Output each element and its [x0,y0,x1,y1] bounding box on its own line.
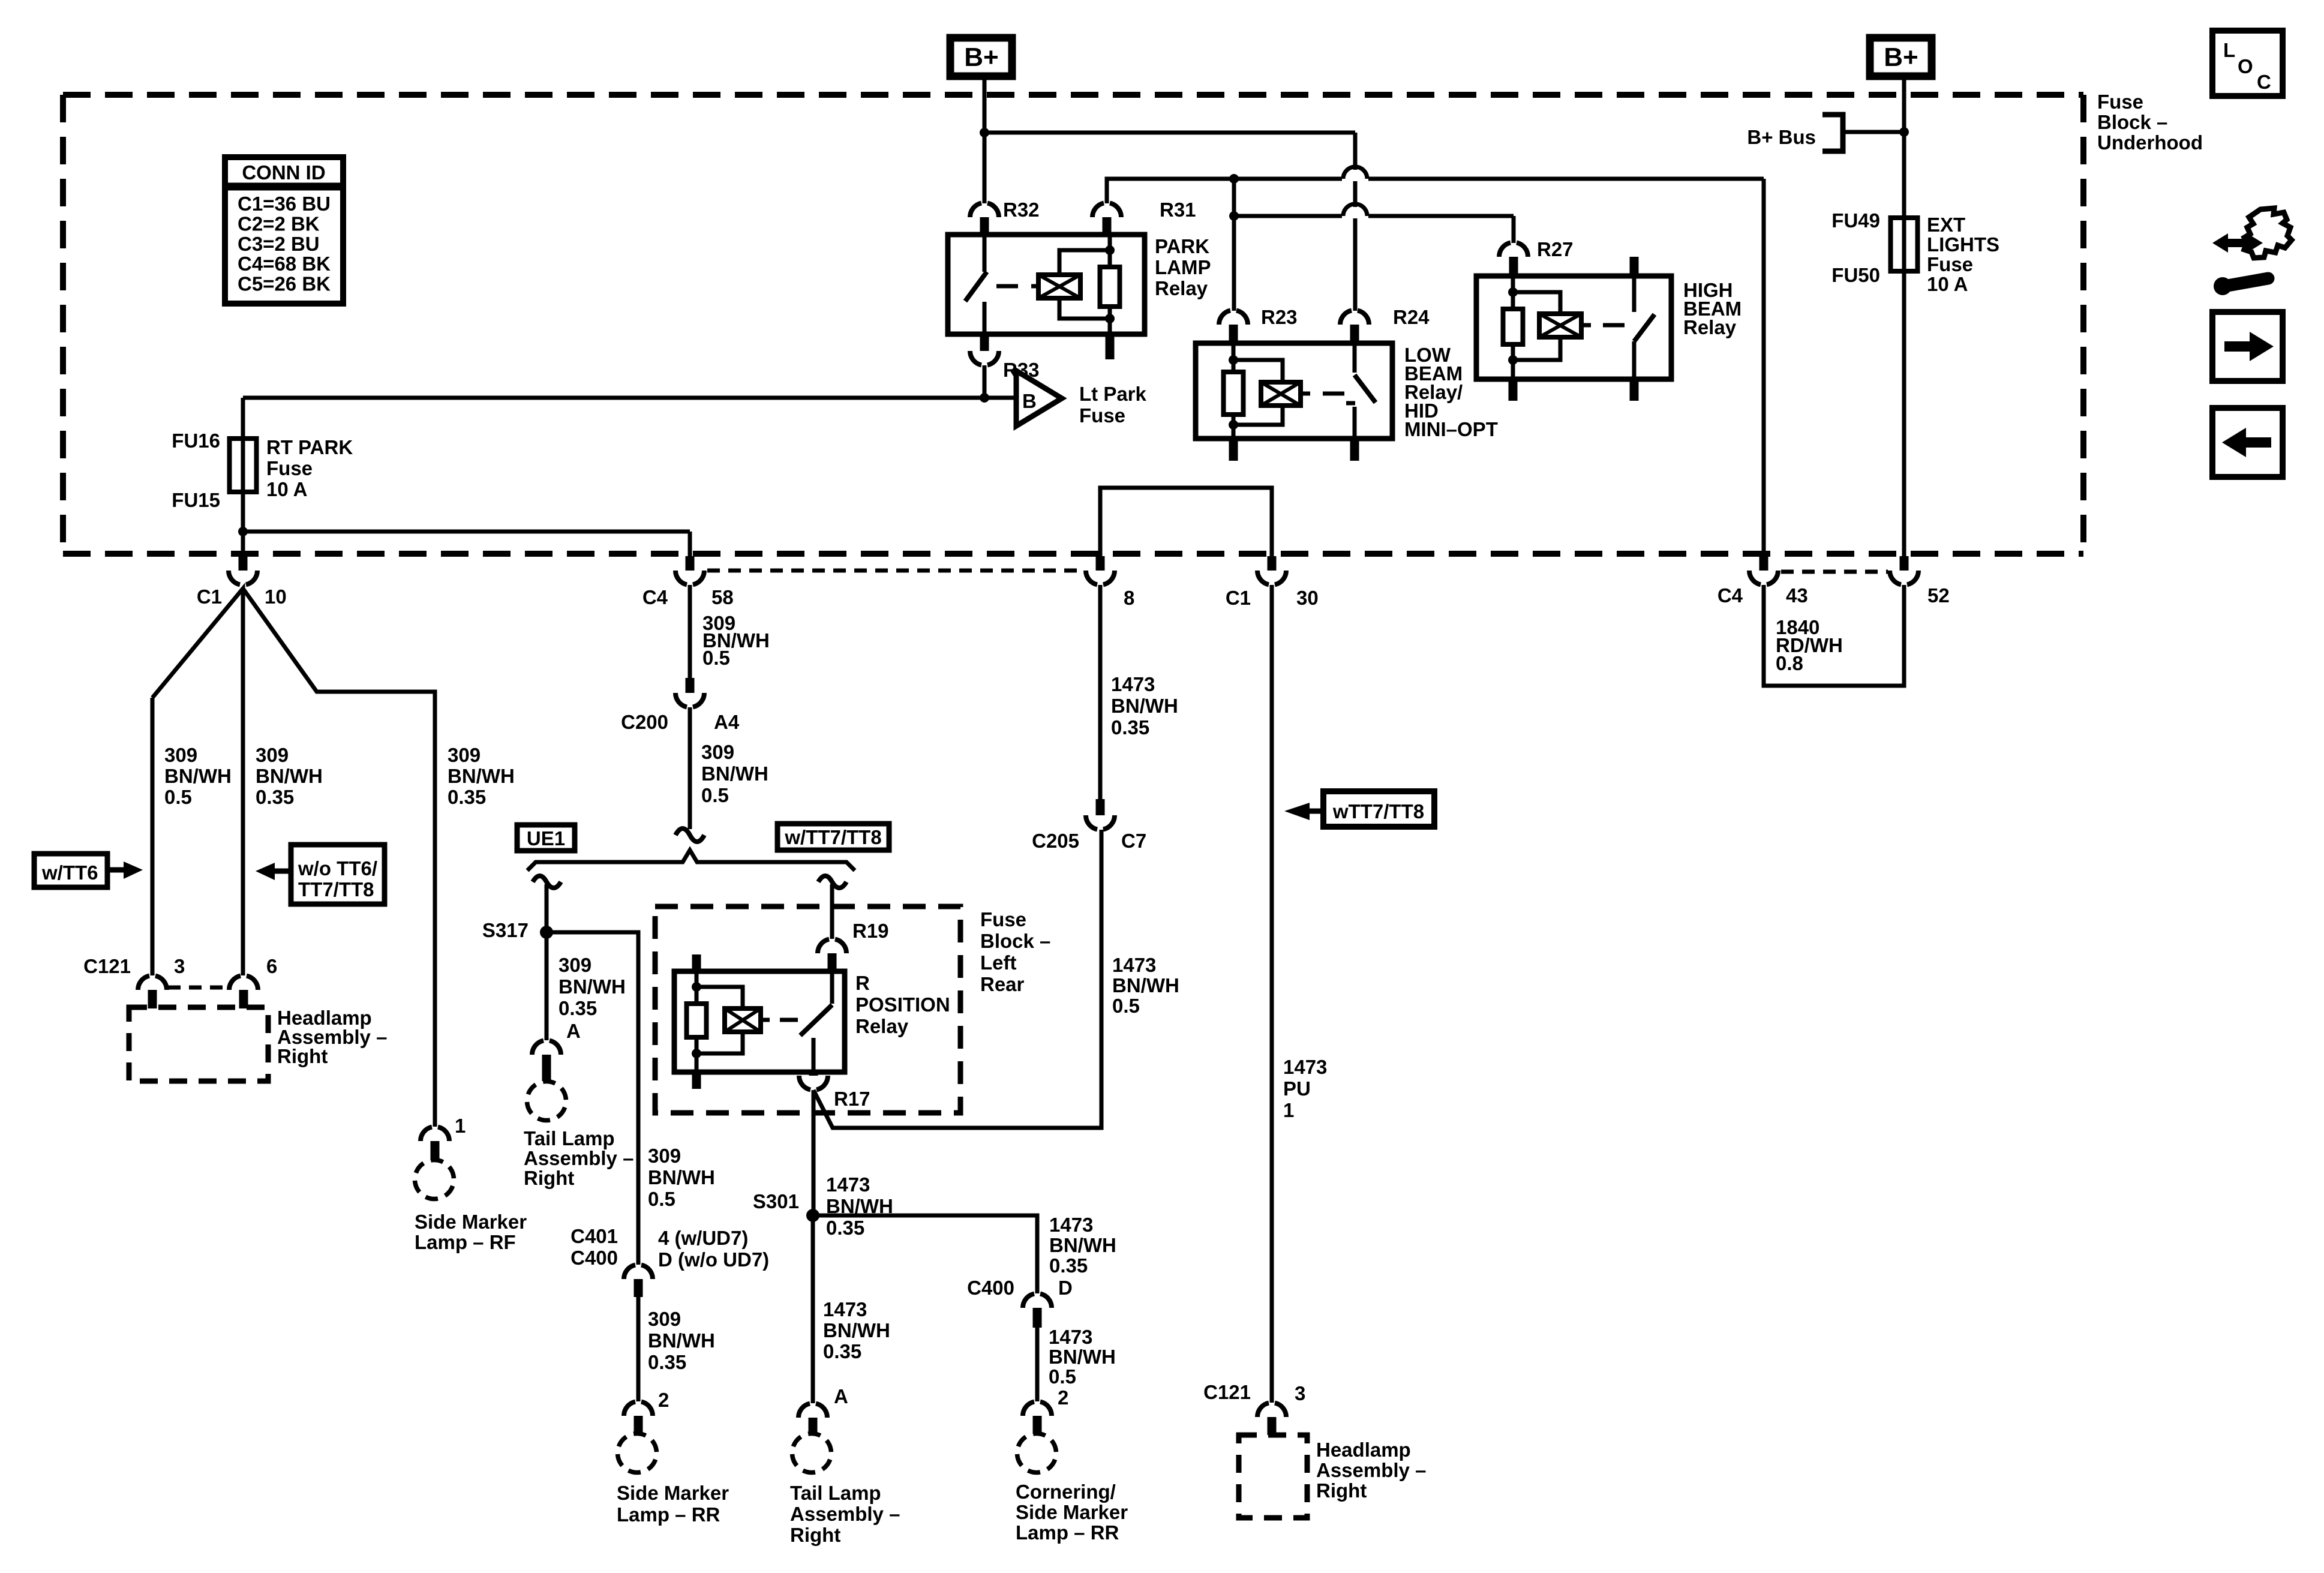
svg-text:Lamp – RF: Lamp – RF [415,1231,516,1253]
svg-text:BN/WH: BN/WH [648,1329,715,1352]
svg-text:1473: 1473 [1112,954,1156,976]
connector pin 52 [1890,556,1950,607]
wire B+ right drop [1902,80,1906,132]
svg-text:S317: S317 [482,919,529,941]
icon LOC box [2212,31,2283,96]
option tag UE1 [517,825,575,851]
svg-text:LIGHTS: LIGHTS [1927,233,1999,256]
relay box HIGH BEAM Relay [1476,276,1671,379]
svg-text:BN/WH: BN/WH [701,763,768,785]
lamp tail lamp right (lower) [792,1434,831,1473]
r position relay resistor [687,954,707,1089]
park lamp relay coil loop [1059,250,1110,319]
svg-text:C1: C1 [1226,587,1251,609]
power feed B+ (left) [950,38,1012,76]
relay terminal R32 [970,199,1040,235]
option tag w/TT6 [34,854,143,887]
svg-text:0.35: 0.35 [826,1217,864,1239]
connector C121 pin 3 (front) [83,955,185,1008]
wire to R23 [1232,216,1236,311]
r position relay coil link dash [780,1018,798,1022]
low beam relay resistor [1224,343,1244,439]
power feed B+ (right) [1870,38,1932,76]
svg-text:BN/WH: BN/WH [256,765,323,787]
svg-text:C200: C200 [621,711,668,733]
svg-text:58: 58 [711,586,734,608]
svg-text:0.8: 0.8 [1776,652,1803,674]
label wire 309 BN/WH 0.35 (middle) [256,744,323,808]
connector C1 pin 30 [1226,556,1319,609]
svg-text:8: 8 [1124,587,1134,609]
svg-text:R24: R24 [1393,306,1430,328]
svg-text:Lt Park: Lt Park [1079,383,1147,405]
wire S301 to C400-D [813,1215,1037,1293]
relay box PARK LAMP Relay [948,235,1145,334]
low beam relay coil loop [1233,360,1283,425]
svg-text:0.35: 0.35 [648,1351,686,1373]
connector C200 pin A4 [621,678,740,733]
relay box LOW BEAM Relay [1196,343,1392,439]
svg-text:Fuse: Fuse [1079,404,1125,427]
connector tail lamp pin A (lower) [798,1385,848,1434]
svg-text:R23: R23 [1261,306,1298,328]
CONN ID table [225,157,343,304]
label wire 309 BN/WH 0.5 (C401) [648,1145,715,1210]
fuse block - underhood dashed outline [63,95,2083,554]
svg-text:Fuse: Fuse [980,908,1026,930]
svg-text:D: D [1058,1277,1073,1299]
headlamp assembly right box (front) [129,1007,268,1081]
svg-text:C205: C205 [1032,830,1079,852]
svg-text:FU15: FU15 [172,489,220,511]
option tag w/TT7/TT8 (split) [777,824,889,850]
svg-text:S301: S301 [753,1190,799,1212]
low beam relay switch [1346,343,1376,439]
wire vertical to R24 (with hops) [1353,133,1358,311]
svg-text:10 A: 10 A [266,478,307,500]
svg-text:O: O [2238,55,2253,77]
svg-text:Side Marker: Side Marker [617,1482,729,1504]
connector C205 pin C7 [1032,799,1146,852]
low beam relay lower stubs [1229,439,1359,461]
svg-text:1473: 1473 [1049,1214,1093,1236]
svg-text:1473: 1473 [1283,1056,1327,1078]
svg-text:4 (w/UD7): 4 (w/UD7) [658,1227,748,1249]
svg-text:309: 309 [448,744,481,766]
label R POSITION Relay [855,972,950,1037]
svg-text:RT PARK: RT PARK [266,436,353,458]
svg-text:0.35: 0.35 [559,997,597,1019]
r position relay coil loop [696,987,743,1053]
svg-text:0.35: 0.35 [823,1340,861,1362]
svg-text:Rear: Rear [980,973,1025,995]
svg-text:C2=2 BK: C2=2 BK [238,212,320,235]
svg-text:R33: R33 [1003,359,1040,381]
relay terminal R23 [1219,306,1298,344]
svg-text:Relay: Relay [1155,277,1208,299]
svg-text:C4: C4 [1718,584,1743,607]
svg-text:R19: R19 [852,920,889,942]
label wire 1473 BN/WH 0.35 (pin 8) [1111,673,1178,739]
connector C400 pin D [967,1277,1073,1328]
svg-text:Side Marker: Side Marker [1016,1501,1128,1523]
headlamp assembly right box (right) [1239,1435,1307,1518]
svg-text:Tail Lamp: Tail Lamp [790,1482,881,1504]
option tag wTT7/TT8 arrow [1284,791,1434,827]
relay terminal R33 [970,334,1040,381]
svg-text:C400: C400 [967,1277,1014,1299]
svg-text:B+: B+ [1884,43,1918,72]
svg-text:30: 30 [1296,587,1319,609]
connector side marker RF pin 1 [421,1115,466,1160]
svg-text:Cornering/: Cornering/ [1016,1481,1116,1503]
label side marker lamp RF [415,1211,527,1253]
option split bracket [527,828,855,870]
svg-text:2: 2 [658,1389,669,1411]
high beam relay coil link dashes [1603,323,1625,328]
svg-text:1473: 1473 [826,1173,870,1196]
svg-text:BN/WH: BN/WH [648,1166,715,1188]
svg-text:10 A: 10 A [1927,273,1968,295]
park lamp relay resistor [1100,235,1120,334]
r position relay switch [800,972,832,1072]
svg-text:10: 10 [265,586,287,608]
svg-text:R: R [855,972,870,994]
high beam relay coil loop [1513,292,1560,360]
fuse FU16/FU15 RT PARK [172,430,353,511]
relay terminal R24 [1340,306,1430,344]
connector side marker RR pin 2 [624,1389,669,1434]
wire UE1 branch curl [533,876,561,932]
wire S301 to tail lamp A [811,1215,815,1403]
svg-text:Relay: Relay [855,1015,909,1037]
svg-text:C7: C7 [1121,830,1146,852]
lamp tail lamp right (upper) [527,1082,566,1121]
svg-text:52: 52 [1927,584,1950,607]
svg-text:1473: 1473 [1049,1326,1092,1348]
label HIGH BEAM Relay [1683,279,1742,338]
label wire 309 BN/WH 0.5 (C200) [701,741,768,806]
wire pin 8 to C205 [1098,585,1103,799]
svg-text:Assembly –: Assembly – [524,1147,633,1169]
svg-text:C5=26 BK: C5=26 BK [238,273,331,295]
wire R31 feed horizontal [1107,167,1764,203]
wire C200 to option split [688,707,692,829]
svg-text:A: A [566,1020,581,1042]
label wire 1473 BN/WH 0.35 (R17) [826,1173,893,1239]
wire C1-10 fan [152,589,435,1127]
svg-text:0.5: 0.5 [1112,995,1140,1017]
wire C401 to pin 2 [636,1297,641,1401]
svg-text:Lamp – RR: Lamp – RR [617,1503,720,1526]
svg-text:1473: 1473 [1111,673,1155,695]
svg-text:Right: Right [524,1167,574,1189]
label PARK LAMP Relay [1155,235,1211,299]
label tail lamp assembly right (lower) [790,1482,900,1546]
wire R33 to RT PARK fuse [243,365,1016,557]
label wire 309 BN/WH 0.35 (right) [448,744,515,808]
label LOW BEAM Relay/HID MINI-OPT [1404,344,1498,440]
relay terminal R27 [1499,238,1574,277]
svg-text:POSITION: POSITION [855,993,950,1016]
svg-text:BN/WH: BN/WH [559,975,626,998]
junction dot R33 wire [980,393,989,403]
connector C121 pin 3 (right) [1203,1381,1305,1435]
park lamp relay coil link dashes [996,284,1038,289]
label headlamp assembly right (front) [277,1007,387,1067]
svg-text:Block –: Block – [980,930,1050,952]
svg-text:0.35: 0.35 [256,786,294,808]
svg-text:0.5: 0.5 [648,1188,675,1210]
label tail lamp assembly right (upper) [524,1127,633,1189]
wire TT7 branch curl [818,876,846,939]
fuse block bus 8 to C1-30 [1100,488,1272,556]
svg-text:w/TT6: w/TT6 [41,861,98,884]
svg-text:Right: Right [277,1045,328,1067]
svg-text:R31: R31 [1160,199,1196,221]
icon vehicle with wrench [2212,208,2292,295]
svg-text:w/o TT6/: w/o TT6/ [298,857,377,879]
r position relay coil [725,1008,770,1032]
svg-text:309: 309 [559,954,591,976]
wire R23/R27 feed horizontal [1234,179,1514,243]
label wire 1473 BN/WH 0.5 (C205) [1112,954,1179,1017]
label wire 1473 PU 1 [1283,1056,1327,1121]
label wire 309 BN/WH 0.5 (C4-58) [702,612,770,669]
svg-text:C: C [2257,71,2271,93]
connector C4 pin 8 [1086,556,1134,609]
wire C4-58 to C200 [688,585,692,678]
svg-text:C4=68 BK: C4=68 BK [238,253,331,275]
connector C4 pin 43 [1718,556,1808,607]
option tag w/o TT6/TT7/TT8 [256,845,385,904]
svg-text:Headlamp: Headlamp [1316,1439,1411,1461]
connector dashed link C121 3-6 [168,986,228,990]
svg-text:3: 3 [174,955,185,977]
park lamp relay coil [1038,275,1080,298]
svg-text:3: 3 [1295,1382,1305,1404]
high beam relay lower stubs [1509,379,1639,401]
svg-text:BN/WH: BN/WH [1112,974,1179,996]
svg-text:Side Marker: Side Marker [415,1211,527,1233]
svg-text:D (w/o UD7): D (w/o UD7) [658,1248,769,1271]
wire B+ to R32 and R24 branch [984,133,1355,203]
svg-text:0.5: 0.5 [164,786,192,808]
svg-text:CONN ID: CONN ID [242,161,325,184]
svg-text:FU49: FU49 [1831,209,1880,232]
svg-text:6: 6 [266,955,277,977]
wire B+ left drop [983,80,987,133]
relay terminal R31 [1092,199,1196,235]
wire 1473 PU C1-30 to C121-3 [1270,585,1274,1403]
relay terminal R17 [799,1072,870,1110]
svg-text:BN/WH: BN/WH [823,1319,890,1341]
lamp side marker RR [618,1434,657,1473]
label fuse block - left rear [980,908,1050,995]
svg-text:2: 2 [1058,1386,1068,1409]
junction dot B+ right [1899,127,1909,137]
svg-text:0.5: 0.5 [1049,1365,1076,1388]
low beam relay coil [1261,382,1310,406]
label wire 1473 BN/WH 0.35 (S301 right) [1049,1214,1116,1277]
svg-text:Relay: Relay [1683,316,1737,338]
label wire 309 BN/WH 0.35 (C401) [648,1308,715,1373]
svg-text:MINI–OPT: MINI–OPT [1404,418,1498,440]
label cornering/side marker lamp RR [1016,1481,1128,1544]
connector dashed link C4-58 to 8 [707,569,1083,573]
label wire 309 BN/WH 0.35 (S317) [559,954,626,1019]
svg-text:0.35: 0.35 [448,786,486,808]
svg-text:w/TT7/TT8: w/TT7/TT8 [784,826,881,848]
wire 1840 RD/WH loop [1764,585,1904,686]
high beam relay coil [1539,314,1591,337]
wire C400-D to pin 2 [1035,1328,1040,1401]
svg-text:FU50: FU50 [1831,264,1880,286]
fuse block - left rear dashed outline [655,906,960,1113]
wire R17 to C205 branch [813,830,1101,1128]
svg-text:B+: B+ [964,43,998,72]
svg-text:309: 309 [648,1308,681,1330]
connector C4 pin 58 [642,556,734,608]
svg-text:Tail Lamp: Tail Lamp [524,1127,615,1149]
label fuse block - underhood [2097,91,2203,154]
svg-text:BN/WH: BN/WH [1049,1346,1116,1368]
svg-text:Right: Right [1316,1479,1367,1502]
label side marker lamp RR [617,1482,729,1526]
connector C401/C400 pin 4/D [571,1225,769,1297]
svg-text:A4: A4 [714,711,740,733]
icon arrow left box [2212,408,2283,477]
lamp cornering/side marker RR [1017,1434,1056,1473]
label wire 1473 BN/WH 0.35 (S301 down) [823,1298,890,1362]
label wire 309 BN/WH 0.5 (left) [164,744,232,808]
icon arrow right box [2212,312,2283,381]
connector cornering lamp pin 2 [1023,1386,1068,1434]
svg-text:FU16: FU16 [172,430,220,452]
svg-text:PARK: PARK [1155,235,1209,257]
svg-text:309: 309 [164,744,197,766]
relay box R POSITION Relay [674,971,845,1072]
splice S301 [753,1190,819,1222]
svg-text:C1: C1 [197,586,222,608]
svg-text:Fuse: Fuse [2097,91,2143,113]
wire R17 to S301 [812,1090,816,1215]
svg-text:Lamp – RR: Lamp – RR [1016,1521,1119,1544]
svg-text:B: B [1022,390,1037,412]
svg-text:Assembly –: Assembly – [1316,1459,1426,1481]
wire C4-43 drop [1762,179,1766,557]
svg-text:BN/WH: BN/WH [164,765,232,787]
wire S317 to tail lamp A [545,932,549,1040]
low beam relay coil link dashes [1323,392,1344,396]
svg-text:309: 309 [648,1145,681,1167]
svg-text:C121: C121 [1203,1381,1251,1403]
svg-text:R32: R32 [1003,199,1040,221]
wire S317 to C401 [547,932,638,1265]
svg-text:L: L [2223,39,2235,61]
svg-text:1473: 1473 [823,1298,867,1320]
svg-text:C401: C401 [571,1225,618,1247]
junction dot R31 feed [1229,174,1239,184]
svg-text:A: A [834,1385,848,1407]
svg-text:BN/WH: BN/WH [1049,1234,1116,1256]
svg-text:1: 1 [455,1115,466,1137]
svg-text:UE1: UE1 [527,827,565,849]
svg-text:Left: Left [980,951,1017,974]
svg-text:C400: C400 [571,1247,618,1269]
junction dot B+ left [980,128,989,137]
svg-text:43: 43 [1786,584,1808,607]
svg-text:0.5: 0.5 [702,647,730,669]
park lamp relay switch [965,235,987,334]
junction dot R23 feed [1229,211,1239,221]
lamp side marker RF [415,1160,454,1199]
svg-text:BN/WH: BN/WH [1111,695,1178,717]
svg-text:BN/WH: BN/WH [448,765,515,787]
label headlamp assembly right (right) [1316,1439,1426,1502]
svg-text:Fuse: Fuse [1927,253,1973,275]
svg-text:C4: C4 [642,586,668,608]
junction dot RT PARK fuse output [238,527,248,536]
fuse FU49/FU50 EXT LIGHTS [1831,132,1999,557]
svg-text:LAMP: LAMP [1155,256,1211,278]
svg-text:EXT: EXT [1927,214,1965,236]
wire fuse output to C4-58 [243,532,690,557]
svg-text:B+ Bus: B+ Bus [1747,126,1816,148]
svg-text:Block –: Block – [2097,111,2167,133]
high beam relay resistor [1503,276,1523,379]
connector tail lamp pin A (upper) [532,1020,581,1081]
high beam relay upper stub [1630,257,1639,277]
svg-text:wTT7/TT8: wTT7/TT8 [1332,800,1424,822]
B triangle Lt Park Fuse [1016,371,1147,427]
svg-text:309: 309 [701,741,734,763]
svg-text:0.35: 0.35 [1111,716,1149,739]
svg-text:Assembly –: Assembly – [790,1503,900,1525]
svg-text:C121: C121 [83,955,131,977]
svg-text:Fuse: Fuse [266,457,313,479]
svg-text:PU: PU [1283,1077,1311,1100]
connector dashed link 43 to 52 [1781,570,1888,574]
svg-text:C1=36 BU: C1=36 BU [238,193,331,215]
svg-text:R27: R27 [1537,238,1574,260]
splice S317 [482,919,553,941]
svg-text:0.35: 0.35 [1049,1254,1088,1277]
B+ Bus tap [1747,115,1904,151]
svg-text:C3=2 BU: C3=2 BU [238,233,320,255]
relay terminal R19 [818,889,889,972]
svg-text:Right: Right [790,1524,840,1546]
svg-text:R17: R17 [834,1088,870,1110]
label wire 1473 BN/WH 0.5 (C400) [1049,1326,1116,1388]
svg-text:1: 1 [1283,1099,1294,1121]
high beam relay switch [1634,276,1655,379]
relay terminal R31 lower stub [1106,334,1115,359]
svg-text:309: 309 [256,744,289,766]
svg-text:Underhood: Underhood [2097,131,2203,154]
connector C1 pin 10 [197,556,287,608]
svg-text:TT7/TT8: TT7/TT8 [298,878,374,900]
connector C121 pin 6 (front) [229,955,277,1008]
svg-text:0.5: 0.5 [701,784,729,806]
